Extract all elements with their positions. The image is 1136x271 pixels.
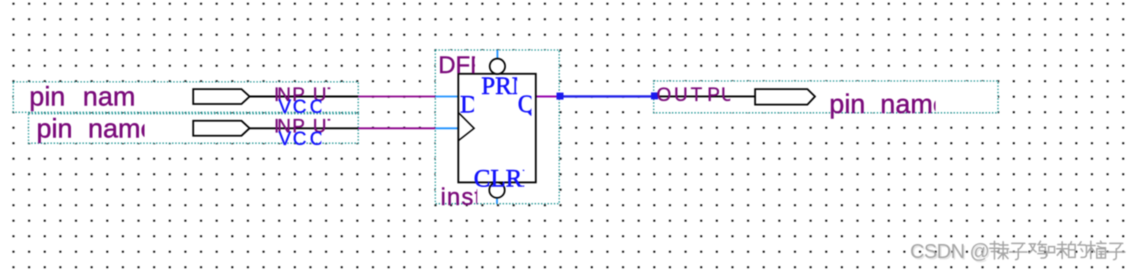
svg-text:VCC: VCC — [279, 97, 324, 118]
svg-text:nam: nam — [83, 82, 136, 112]
svg-text:CSDN @: CSDN @ — [910, 241, 989, 263]
svg-text:pin: pin — [29, 82, 65, 112]
svg-text:pin: pin — [829, 89, 865, 119]
svg-text:pin: pin — [37, 113, 73, 143]
svg-text:VCC: VCC — [279, 129, 324, 150]
